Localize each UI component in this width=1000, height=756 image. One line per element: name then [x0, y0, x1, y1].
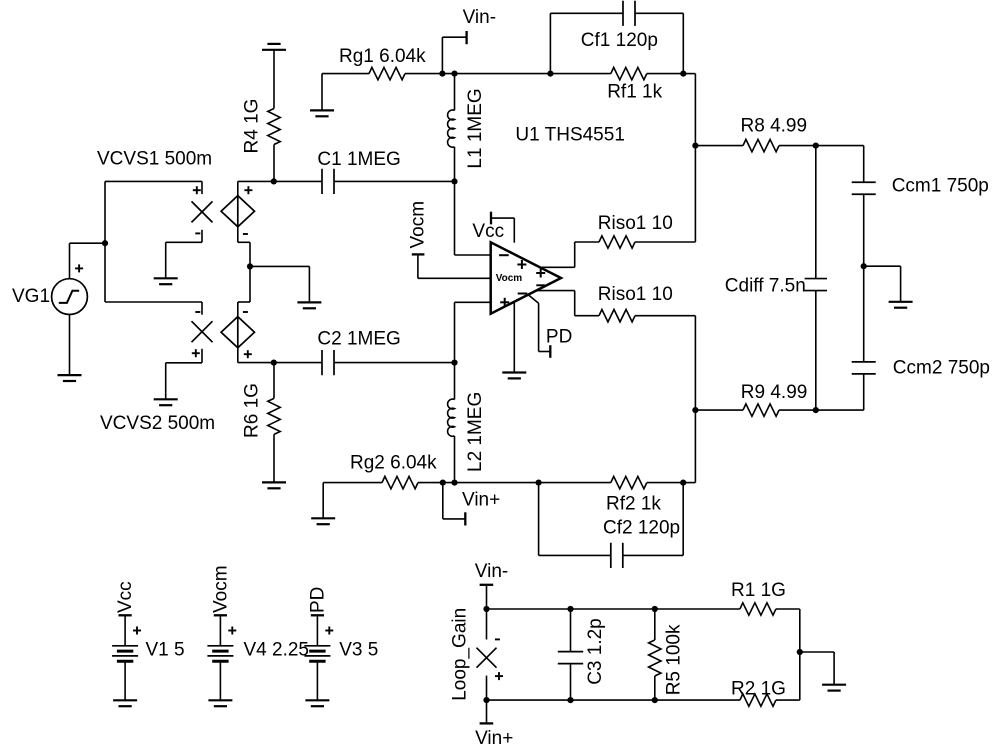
svg-text:Rg2 6.04k: Rg2 6.04k [350, 453, 437, 474]
svg-text:VCVS2 500m: VCVS2 500m [100, 413, 215, 434]
svg-text:Loop_Gain: Loop_Gain [450, 608, 471, 701]
svg-text:L2 1MEG: L2 1MEG [465, 392, 486, 472]
svg-text:VCVS1 500m: VCVS1 500m [97, 149, 212, 170]
svg-text:Vocm: Vocm [408, 201, 429, 249]
svg-text:C3 1.2p: C3 1.2p [585, 618, 606, 685]
svg-text:Vcc: Vcc [115, 581, 136, 613]
svg-text:Riso1 10: Riso1 10 [598, 284, 673, 305]
svg-text:L1 1MEG: L1 1MEG [465, 88, 486, 168]
svg-text:Vocm: Vocm [496, 273, 523, 284]
svg-text:C1 1MEG: C1 1MEG [317, 149, 400, 170]
svg-text:R1 1G: R1 1G [731, 580, 786, 601]
svg-text:Vcc: Vcc [472, 221, 504, 242]
svg-text:U1 THS4551: U1 THS4551 [515, 125, 625, 146]
svg-text:PD: PD [307, 587, 328, 613]
svg-text:R2 1G: R2 1G [731, 679, 786, 700]
svg-text:R8 4.99: R8 4.99 [741, 116, 808, 137]
svg-text:Ccm2 750p: Ccm2 750p [893, 358, 990, 379]
svg-text:Rf2 1k: Rf2 1k [606, 494, 661, 515]
svg-text:Cf1 120p: Cf1 120p [581, 30, 658, 51]
svg-text:R4 1G: R4 1G [242, 99, 263, 154]
svg-text:Rg1 6.04k: Rg1 6.04k [339, 46, 426, 67]
svg-text:V1 5: V1 5 [146, 639, 185, 660]
svg-text:Vocm: Vocm [210, 565, 231, 613]
svg-text:C2 1MEG: C2 1MEG [317, 329, 400, 350]
svg-text:Cdiff 7.5n: Cdiff 7.5n [725, 276, 806, 297]
svg-text:R9 4.99: R9 4.99 [741, 382, 808, 403]
svg-text:Vin-: Vin- [463, 7, 496, 28]
svg-text:Rf1 1k: Rf1 1k [607, 82, 662, 103]
svg-text:Riso1 10: Riso1 10 [598, 213, 673, 234]
svg-text:R5 100k: R5 100k [663, 624, 684, 695]
svg-text:Vin+: Vin+ [462, 490, 500, 511]
svg-text:VG1: VG1 [12, 286, 50, 307]
svg-text:Vin+: Vin+ [475, 728, 513, 749]
svg-text:R6 1G: R6 1G [242, 383, 263, 438]
svg-text:V4 2.25: V4 2.25 [244, 639, 310, 660]
svg-text:Cf2 120p: Cf2 120p [603, 518, 680, 539]
svg-text:PD: PD [546, 327, 572, 348]
svg-text:V3 5: V3 5 [339, 639, 378, 660]
svg-text:Vin-: Vin- [475, 561, 508, 582]
svg-text:Ccm1 750p: Ccm1 750p [892, 175, 989, 196]
